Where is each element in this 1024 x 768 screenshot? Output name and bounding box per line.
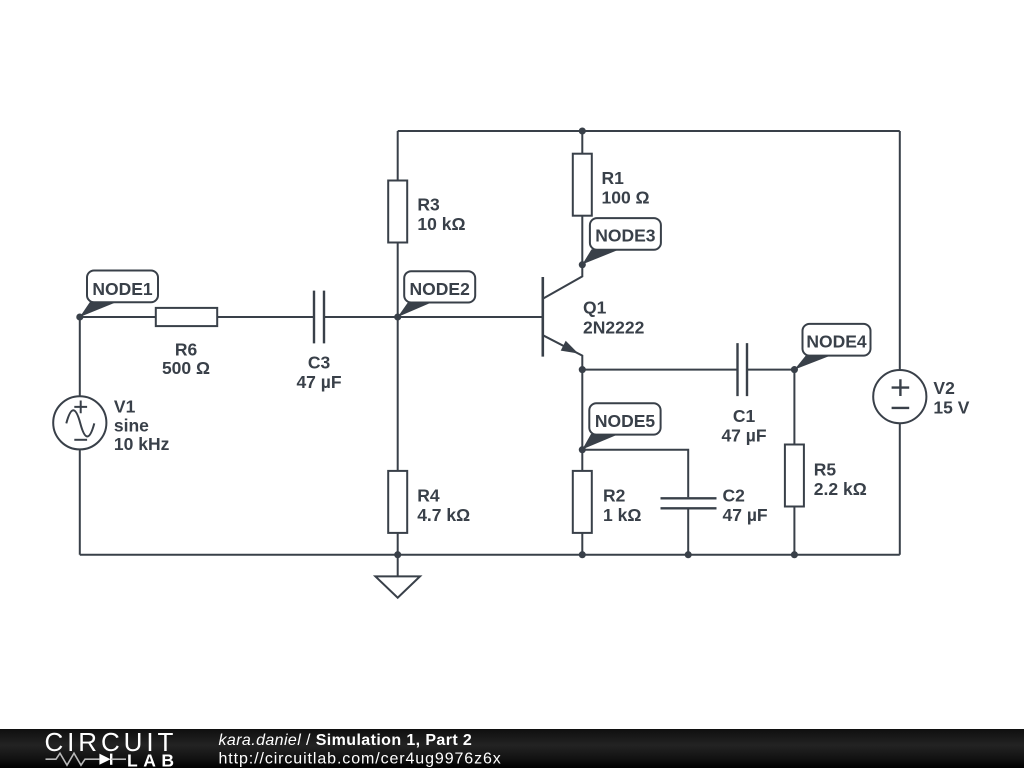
svg-text:2.2 kΩ: 2.2 kΩ xyxy=(814,479,867,499)
footer bar xyxy=(0,727,1024,768)
svg-text:500 Ω: 500 Ω xyxy=(162,358,210,378)
svg-text:R5: R5 xyxy=(814,459,837,479)
node NODE1 dot xyxy=(76,313,83,320)
wire V1 left column xyxy=(79,317,81,555)
svg-text:C1: C1 xyxy=(733,406,756,426)
svg-text:NODE5: NODE5 xyxy=(595,411,656,431)
resistor R2 xyxy=(573,471,642,533)
wire top rail xyxy=(398,130,900,132)
svg-text:sine: sine xyxy=(114,416,149,436)
node rail dot R4 xyxy=(394,551,401,558)
node NODE4 callout xyxy=(794,324,870,370)
wire NODE4 to R5 xyxy=(793,370,795,555)
svg-text:NODE4: NODE4 xyxy=(806,332,867,352)
transistor Q1 xyxy=(543,265,645,370)
svg-text:NODE3: NODE3 xyxy=(595,226,656,246)
capacitor C2 xyxy=(661,486,768,526)
node NODE4 dot xyxy=(791,366,798,373)
svg-text:R2: R2 xyxy=(603,486,626,506)
svg-text:47 µF: 47 µF xyxy=(723,505,768,525)
svg-text:1 kΩ: 1 kΩ xyxy=(603,505,641,525)
node rail dot R5 xyxy=(791,551,798,558)
svg-text:http://circuitlab.com/cer4ug99: http://circuitlab.com/cer4ug9976z6x xyxy=(219,751,502,768)
source V1 xyxy=(53,396,169,454)
resistor R1 xyxy=(573,154,650,216)
wire bottom rail xyxy=(80,554,900,556)
node rail dot C2 xyxy=(685,551,692,558)
node NODE3 dot xyxy=(579,261,586,268)
wire V2 right column xyxy=(899,131,901,555)
svg-text:C2: C2 xyxy=(723,486,746,506)
svg-text:10 kΩ: 10 kΩ xyxy=(417,214,465,234)
svg-text:NODE2: NODE2 xyxy=(410,279,471,299)
svg-text:R4: R4 xyxy=(417,485,440,505)
node NODE3 callout xyxy=(582,218,661,264)
wire emitter row to C1 xyxy=(582,369,794,371)
svg-text:47 µF: 47 µF xyxy=(296,372,341,392)
svg-text:R3: R3 xyxy=(417,194,440,214)
wire R1 collector column xyxy=(581,131,583,265)
node emitter junction dot xyxy=(579,366,586,373)
resistor R6 xyxy=(156,308,217,378)
wire R3 R4 column xyxy=(397,131,399,555)
svg-text:NODE1: NODE1 xyxy=(92,279,153,299)
svg-text:15 V: 15 V xyxy=(933,397,969,417)
node NODE2 dot xyxy=(394,313,401,320)
resistor R3 xyxy=(388,181,465,243)
node NODE5 dot xyxy=(579,446,586,453)
wire NODE5 to C2 xyxy=(582,450,688,555)
node NODE5 callout xyxy=(582,403,660,449)
svg-text:4.7 kΩ: 4.7 kΩ xyxy=(417,505,470,525)
svg-text:R1: R1 xyxy=(602,168,625,188)
resistor R4 xyxy=(388,471,470,533)
svg-text:47 µF: 47 µF xyxy=(721,425,766,445)
capacitor C3 xyxy=(296,291,341,392)
source V2 xyxy=(873,370,970,423)
svg-text:100 Ω: 100 Ω xyxy=(602,187,650,207)
svg-text:Q1: Q1 xyxy=(583,298,607,318)
svg-text:C3: C3 xyxy=(308,353,331,373)
node top rail junction xyxy=(579,127,586,134)
ground xyxy=(375,555,420,598)
node rail dot R2 xyxy=(579,551,586,558)
svg-text:2N2222: 2N2222 xyxy=(583,317,645,337)
svg-text:R6: R6 xyxy=(175,339,198,359)
capacitor C1 xyxy=(721,343,766,445)
svg-text:10 kHz: 10 kHz xyxy=(114,434,170,454)
svg-text:V2: V2 xyxy=(933,378,955,398)
wire main input row xyxy=(80,316,542,318)
node NODE1 callout xyxy=(80,271,158,318)
resistor R5 xyxy=(785,445,867,507)
node NODE2 callout xyxy=(398,271,476,317)
svg-text:LAB: LAB xyxy=(127,750,179,768)
wire emitter to R2 column xyxy=(581,370,583,555)
logo resistor zigzag and diode xyxy=(46,753,100,765)
svg-text:kara.daniel / Simulation 1, Pa: kara.daniel / Simulation 1, Part 2 xyxy=(219,732,473,749)
svg-text:V1: V1 xyxy=(114,396,136,416)
